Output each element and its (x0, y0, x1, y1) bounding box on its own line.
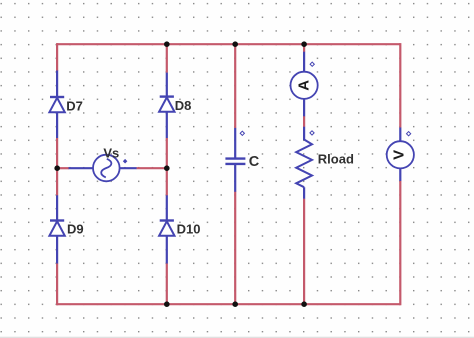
junction bottom rail at C (232, 301, 238, 307)
svg-text:Rload: Rload (318, 152, 354, 167)
wire: capacitor rail red bottom segment (234, 192, 236, 304)
wire: rail2 red top segment (166, 44, 168, 73)
diode D8 top lead (166, 73, 168, 98)
diode D7 top lead (56, 71, 58, 98)
resistor Rload zigzag (296, 140, 312, 188)
source Vs left lead (69, 167, 94, 169)
source Vs right lead (120, 167, 137, 169)
wire: ammeter rail red top stub (303, 44, 305, 52)
resistor Rload top lead (303, 127, 305, 140)
resistor Rload bottom lead (303, 187, 305, 199)
junction top rail at D8 (164, 41, 170, 47)
source Vs circle (93, 155, 120, 182)
wire: rail2 red bottom segment (166, 264, 168, 305)
junction top rail at ammeter (301, 41, 307, 47)
diode D7 bottom lead (56, 112, 58, 138)
diode D8 bottom lead (166, 112, 168, 138)
diode D7 triangle (49, 98, 64, 112)
voltmeter plus marker (406, 132, 410, 136)
bottom window edge (0, 337, 474, 338)
svg-text:D7: D7 (66, 98, 83, 113)
ammeter plus marker (310, 62, 314, 66)
diode D9 top lead (56, 195, 58, 221)
capacitor C top lead (234, 128, 236, 159)
capacitor C bottom lead (234, 164, 236, 192)
diode D9 cathode bar (50, 219, 64, 221)
svg-text:D9: D9 (67, 222, 84, 237)
wire: short red segment between ammeter and Rload (303, 116, 305, 127)
wire: rail2 mid red segment (166, 138, 168, 196)
diode D10 cathode bar (160, 219, 174, 221)
svg-text:D8: D8 (175, 98, 192, 113)
voltmeter U2 circle (387, 141, 414, 168)
diode D8 cathode bar (160, 95, 174, 97)
capacitor C top plate (225, 157, 245, 159)
wire: right rail red bottom segment (399, 181, 401, 305)
junction middle wire right (164, 165, 170, 171)
capacitor C bottom plate (225, 163, 245, 165)
svg-text:D10: D10 (177, 222, 201, 237)
wire: left rail mid red segment (56, 138, 58, 196)
source Vs plus marker (123, 159, 128, 164)
capacitor plus marker (240, 131, 244, 135)
source Vs sine squiggle (101, 159, 111, 178)
svg-text:C: C (249, 154, 260, 170)
ammeter U1 bottom lead (303, 99, 305, 117)
diode D7 cathode bar (50, 96, 64, 98)
wire: left rail red bottom segment (56, 264, 58, 306)
diode D10 top lead (166, 195, 168, 221)
wire: middle red stub left of junction (57, 167, 69, 169)
ammeter U1 top lead (303, 52, 305, 72)
resistor plus marker (310, 131, 314, 135)
wire: top rail (57, 43, 400, 45)
svg-text:Vs: Vs (103, 145, 119, 160)
diode D9 triangle (49, 221, 64, 236)
svg-text:A: A (296, 80, 313, 91)
wire: bottom rail (57, 303, 400, 305)
diode D8 triangle (159, 97, 174, 111)
diode D10 triangle (159, 221, 174, 236)
wire: middle red segment to rail2 (137, 167, 167, 169)
voltmeter U2 bottom lead (399, 168, 401, 181)
wire: ammeter rail red bottom segment (303, 199, 305, 305)
voltmeter U2 top lead (399, 128, 401, 142)
wire: capacitor rail red top segment (234, 44, 236, 128)
diode D9 bottom lead (56, 236, 58, 264)
svg-text:V: V (391, 150, 408, 160)
junction bottom rail at Rload (301, 301, 307, 307)
junction middle wire left (54, 165, 60, 171)
wire: right rail red top segment (399, 43, 401, 128)
ammeter U1 circle (291, 72, 318, 99)
junction bottom rail at D10 (164, 301, 170, 307)
diode D10 bottom lead (166, 236, 168, 264)
wire: left rail red top segment (56, 43, 58, 71)
junction top rail at C (232, 41, 238, 47)
